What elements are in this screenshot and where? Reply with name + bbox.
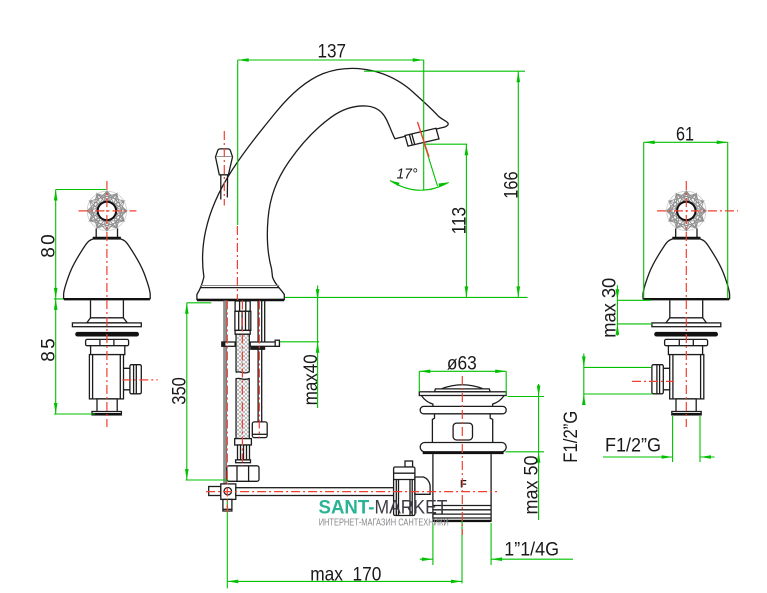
left valve bell bottom thick line (deck) — [64, 298, 150, 300]
svg-text:F1/2”G: F1/2”G — [605, 435, 661, 456]
left valve deck flange — [72, 323, 141, 327]
dim max50 line with outside arrows — [538, 384, 540, 520]
drain waist fillets — [422, 396, 505, 407]
dim 80 top extension — [56, 189, 106, 191]
dim F1/2G bottom extensions — [673, 416, 700, 462]
svg-text:137: 137 — [318, 41, 347, 62]
flex hose bottom band — [236, 460, 251, 463]
svg-text:max40: max40 — [301, 354, 322, 405]
right valve bell bottom thick line — [643, 298, 729, 300]
right valve deck flange — [652, 323, 721, 327]
svg-text:ø63: ø63 — [447, 353, 477, 374]
dim dia63 line — [419, 370, 506, 372]
dim 166 line — [517, 71, 519, 297]
dim max40 bottom extension — [280, 341, 319, 343]
svg-text:17°: 17° — [397, 166, 418, 183]
horizontal linkage rod — [236, 488, 394, 496]
left valve vertical centerline — [106, 181, 108, 427]
spout top tangent extension — [364, 70, 525, 72]
dim max170 left extension — [226, 499, 228, 588]
second pipe end fitting — [252, 422, 267, 438]
dim max170 line — [227, 580, 462, 582]
dim 80 line — [55, 190, 57, 299]
dim 61 line — [644, 141, 728, 143]
dim 350 bottom extension — [186, 479, 229, 481]
left valve handle horizontal centerline — [79, 210, 137, 212]
right valve upper body section — [668, 346, 702, 355]
right valve vertical centerline — [685, 181, 687, 427]
spout body axis — [236, 226, 238, 300]
dim dia63 extensions — [419, 371, 506, 395]
dim 1-1/4G line (outside arrows) — [420, 558, 573, 560]
pop-up knob stem — [221, 175, 228, 200]
drain tailpipe threads — [433, 506, 491, 519]
dim 1-1/4G extensions — [433, 523, 491, 565]
right valve bottom tailpiece — [676, 399, 696, 412]
dim max170 right extension (drain axis) — [461, 520, 463, 583]
dim F1/2G side line (outside arrows) — [583, 354, 585, 402]
pop-up lift rod (gray) — [224, 301, 227, 484]
drain axis — [461, 376, 463, 535]
dim 350 top extension — [187, 302, 212, 304]
left valve bell top line — [93, 237, 121, 240]
left valve side outlet — [124, 368, 130, 390]
left valve cone step — [87, 318, 128, 323]
mounting bracket left — [222, 342, 235, 346]
drain top rim — [419, 392, 506, 396]
left valve rubber o-ring — [78, 332, 137, 337]
left valve main body — [89, 355, 123, 399]
left valve outlet centerline — [122, 379, 157, 381]
right valve handle neck — [676, 229, 697, 238]
left valve upper body section — [91, 346, 125, 355]
left valve handle hub circle — [98, 202, 116, 220]
right valve handle hub circle — [677, 202, 695, 220]
spout base bead lines — [201, 285, 279, 287]
mounting bracket right — [250, 342, 279, 346]
drain tailpipe bottom thick edge — [433, 520, 490, 522]
flex hose end nut — [227, 466, 259, 482]
dim max30 line (outside arrows) — [616, 285, 618, 336]
dim 85 line — [55, 299, 57, 414]
dim F1/2G side extensions — [584, 367, 653, 394]
dim max50 extensions — [506, 397, 545, 452]
braid break squiggle — [235, 372, 250, 378]
pivot rod coupling nut — [394, 467, 415, 516]
spout base deck thick line — [197, 299, 284, 301]
outlet axis extension (vertical through aerator) — [423, 60, 425, 190]
svg-text:MARKET: MARKET — [375, 498, 448, 519]
svg-text:1”1/4G: 1”1/4G — [504, 540, 559, 561]
right valve rubber o-ring — [657, 332, 716, 337]
aerator axis (tilted) — [418, 122, 430, 157]
hose axis — [241, 301, 243, 467]
drain overflow hole — [453, 423, 472, 440]
right valve mounting nut — [665, 339, 708, 345]
drain upper flange — [420, 406, 506, 413]
pivot connector into drain — [415, 477, 430, 494]
drain gasket band — [423, 452, 504, 454]
dim F1/2G bottom line (outside arrows) — [603, 456, 715, 458]
lift rod axis — [226, 301, 228, 513]
drain plug dome — [442, 385, 483, 389]
dim 350 line — [186, 303, 188, 480]
svg-text:max 30: max 30 — [600, 278, 621, 338]
pivot rod coupling stub — [405, 461, 413, 467]
dim 137 left extension — [237, 60, 239, 225]
dim max30 extensions — [617, 300, 652, 324]
dim 85 bottom extension — [54, 413, 95, 415]
right valve side outlet — [663, 368, 669, 390]
dim 113 line — [465, 144, 467, 297]
left valve handle neck — [96, 229, 117, 238]
dim 137 line — [238, 59, 424, 61]
pop-up knob on spout — [216, 149, 233, 175]
drain tailpipe — [433, 454, 491, 522]
deck extension line (left valve, under drawing) — [54, 298, 149, 300]
right valve handle horizontal centerline — [657, 210, 738, 212]
svg-text:113: 113 — [449, 207, 470, 234]
left valve below-deck neck — [91, 300, 124, 318]
outlet height extension — [425, 143, 468, 145]
flex hose bottom ribbed section — [238, 445, 250, 460]
drain body sides — [432, 414, 492, 443]
spout swan-neck body — [197, 68, 448, 299]
right valve below-deck neck — [670, 300, 703, 318]
left valve bottom tailpiece — [97, 399, 117, 412]
pop-up knob axis — [223, 131, 225, 206]
svg-text:max 170: max 170 — [310, 565, 381, 586]
flex hose braided body — [236, 334, 249, 438]
right valve bell top line — [672, 237, 700, 240]
right valve cone step — [666, 318, 707, 323]
flex hose top nut — [235, 301, 250, 311]
right valve main body — [670, 355, 704, 399]
right valve outlet centerline — [632, 380, 674, 382]
17 degree slant line — [424, 144, 437, 186]
svg-text:F1/2”G: F1/2”G — [561, 411, 582, 463]
svg-text:350: 350 — [169, 377, 190, 405]
flex hose bottom collar — [235, 439, 252, 445]
drain plug cap plate — [435, 389, 491, 392]
dim max40 line (outside arrows) — [317, 286, 319, 409]
bracket nut (dark) — [250, 346, 265, 350]
second supply pipe — [258, 301, 265, 422]
valve handle star mesh (right valve top) — [667, 191, 706, 230]
svg-text:max 50: max 50 — [522, 456, 543, 515]
valve handle star mesh (left valve top) — [87, 191, 126, 230]
aerator nozzle (tilted) — [405, 128, 439, 146]
17 degree arc — [390, 181, 449, 191]
svg-text:ИНТЕРНЕТ-МАГАЗИН САНТЕХНИКИ: ИНТЕРНЕТ-МАГАЗИН САНТЕХНИКИ — [319, 518, 449, 529]
flex hose top collar (ribbed) — [235, 311, 251, 330]
linkage rod axis — [206, 491, 497, 493]
deck extension line (center) — [285, 296, 528, 298]
second pipe axis — [258, 301, 260, 438]
drain lower flange — [420, 443, 506, 452]
left valve bell body — [64, 239, 151, 299]
svg-text:61: 61 — [676, 124, 694, 145]
svg-text:SANT-: SANT- — [319, 498, 375, 519]
svg-text:166: 166 — [502, 171, 523, 198]
pop-up linkage block — [209, 487, 221, 496]
right valve bell body — [643, 239, 730, 299]
left valve mounting nut — [86, 339, 129, 345]
flex hose top band — [235, 330, 250, 334]
dim 61 extensions — [644, 142, 728, 298]
svg-text:F: F — [460, 479, 467, 491]
